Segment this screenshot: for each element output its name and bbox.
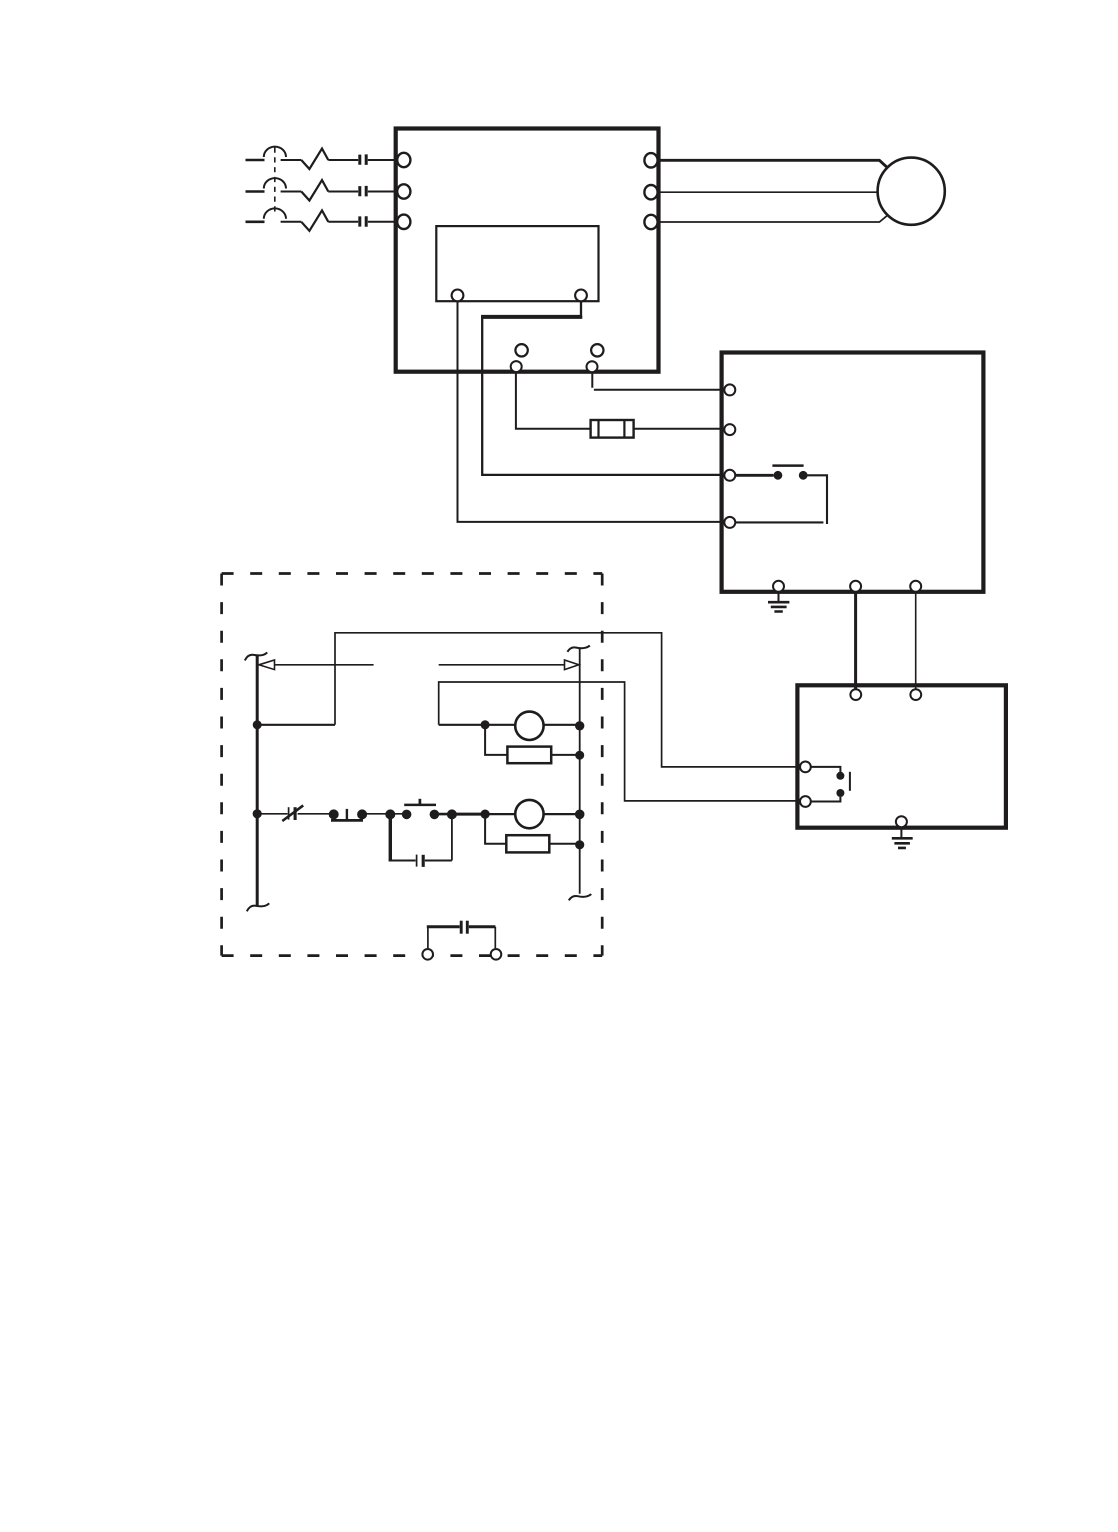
brake contact dot b	[836, 789, 844, 797]
inverter bottom terminal circle 1	[511, 361, 522, 372]
left rail top break tilde	[245, 652, 267, 660]
wire option to brake unit thin	[915, 592, 917, 690]
breaker element zigzag pole 2	[301, 180, 328, 200]
self hold branch wire left	[389, 860, 416, 862]
breaker linkage dashed line	[274, 148, 276, 215]
option terminal 1 circle	[724, 384, 735, 395]
wire stop to start section	[362, 813, 390, 815]
option bottom terminal circle 3	[910, 581, 921, 592]
contactor contact bars pole 1	[360, 154, 366, 165]
distance arrow left head	[259, 660, 275, 670]
junction dot rung1 right rail	[575, 721, 584, 730]
stop button contact dot right	[357, 809, 367, 819]
terminal T circle	[397, 215, 410, 229]
inverter bottom knockout upper circle 2	[591, 344, 603, 356]
brake left terminal circle 2	[800, 796, 811, 807]
inverter bottom terminal circle 2	[587, 361, 598, 372]
dashed enclosure top edge	[222, 572, 603, 575]
inverter bottom knockout upper circle 1	[515, 344, 527, 356]
wire U to motor	[658, 160, 888, 167]
distance arrow right shaft	[439, 664, 565, 666]
fuse F1 end caps	[599, 420, 625, 438]
wire to brake unit terminal2	[439, 682, 800, 801]
dashed enclosure right edge	[601, 574, 604, 956]
resistor branch rung2 wire	[485, 814, 580, 844]
contactor contact bars pole 2	[360, 186, 366, 197]
internal relay contact bar	[772, 464, 803, 467]
surge capacitor plate left	[460, 921, 463, 934]
contactor contact bars pole 3	[360, 216, 366, 227]
self hold branch wire right	[425, 860, 452, 862]
terminal S circle	[397, 184, 410, 198]
resistor R1 body	[507, 747, 551, 764]
option bottom terminal circle 2	[850, 581, 861, 592]
panel terminal circle right	[575, 290, 587, 302]
ground symbol of option unit	[778, 592, 780, 602]
distance arrow right head	[565, 660, 579, 670]
left rail bottom break tilde	[247, 903, 269, 911]
right supply rail	[579, 649, 581, 894]
brake bottom terminal circle	[896, 816, 907, 827]
breaker MCCB pole 1 arc	[264, 147, 286, 157]
self hold contact thin bar	[416, 855, 418, 867]
wire D to coil rung2 thick	[452, 813, 485, 816]
internal relay contact dot a	[774, 471, 783, 480]
distance arrow left shaft	[275, 664, 374, 666]
start button contact dot C	[430, 810, 440, 820]
terminal U circle	[644, 153, 657, 167]
wire contact to terminal4	[735, 475, 827, 524]
surge capacitor plate right	[466, 921, 469, 934]
NC relay contact thin bar	[288, 807, 290, 819]
operation panel box	[436, 226, 598, 301]
option terminal 2 circle	[724, 424, 735, 435]
inverter box	[396, 129, 659, 372]
fuse F1 body	[591, 420, 634, 438]
brake unit box	[797, 685, 1006, 827]
resistor R2 body	[506, 835, 549, 852]
self hold branch left leg	[389, 814, 392, 860]
breaker element zigzag pole 3	[301, 210, 328, 230]
junction dot rung2 right rail	[575, 810, 585, 820]
stop button contact dot left	[329, 809, 339, 819]
self hold branch right leg	[451, 814, 453, 860]
wire rung2 from left rail	[257, 813, 287, 815]
wire terminal3 to internal contact	[735, 474, 773, 477]
resistor branch rung1 wire	[485, 725, 580, 755]
wire terminal1 down to fuse	[516, 372, 591, 429]
wire rung2 to stop button	[298, 813, 330, 815]
option bottom terminal E circle	[773, 581, 784, 592]
surge capacitor top wire left	[427, 925, 460, 928]
internal relay contact dot b	[799, 471, 808, 480]
NC relay contact thick bar	[294, 807, 297, 820]
NC relay contact slash	[282, 805, 303, 821]
junction dot resistor2 right rail	[575, 840, 584, 849]
start button open bar	[404, 804, 436, 807]
right rail bottom break tilde	[569, 894, 591, 900]
panel terminal circle left	[452, 290, 464, 302]
wire L2 input stub	[246, 190, 265, 193]
stop button stem	[346, 809, 348, 819]
wire V to motor	[658, 191, 879, 193]
wire L1 input stub	[246, 159, 265, 162]
wire option to brake unit thick	[854, 592, 857, 690]
right rail top break tilde	[567, 646, 589, 652]
terminal R circle	[397, 153, 410, 167]
junction dot resistor1 right rail	[575, 751, 584, 760]
wire to brake unit terminal1	[335, 633, 800, 767]
wire rung1 left segment	[257, 724, 335, 726]
wire rung2 coil segment	[485, 813, 580, 815]
junction dot start section D	[447, 809, 457, 819]
surge capacitor right leg	[494, 927, 496, 948]
terminal W circle	[644, 215, 657, 229]
wire panel right thick elbow	[481, 316, 582, 319]
wire panel right to option terminal 3	[482, 301, 725, 475]
wire rung1 coil segment	[439, 724, 580, 726]
start button stem	[419, 799, 422, 805]
junction dot start section A	[385, 809, 395, 819]
brake top terminal circle 1	[850, 689, 861, 700]
wire contact to terminal2	[811, 797, 841, 802]
wire L2 to contact	[328, 191, 358, 193]
surge terminal circle left	[422, 949, 433, 960]
wire L2 after breaker	[281, 191, 302, 193]
wire L3 input stub	[246, 221, 265, 224]
start button contact dot B	[402, 810, 412, 820]
wire L1 after breaker	[281, 159, 302, 161]
stop button closed bar	[331, 819, 363, 822]
junction dot rung1 left rail	[253, 720, 262, 729]
wire panel left to option terminal 4	[458, 301, 726, 522]
wire fuse to option terminal 2	[634, 428, 725, 430]
surge capacitor left leg	[427, 927, 429, 948]
relay coil MC1 circle	[515, 712, 543, 740]
option terminal 4 circle	[724, 517, 735, 528]
wire L1 to terminal R	[368, 159, 395, 161]
wire L3 after breaker	[281, 221, 302, 223]
dashed enclosure bottom edge	[222, 954, 603, 957]
brake contact bar	[849, 772, 851, 791]
surge capacitor top wire right	[469, 925, 496, 928]
breaker element zigzag pole 1	[301, 149, 328, 169]
terminal V circle	[644, 185, 657, 199]
wire W to motor	[658, 216, 887, 222]
wire C to D	[434, 813, 452, 816]
motor M circle	[878, 158, 945, 225]
breaker MCCB pole 3 arc	[264, 208, 286, 218]
wire L3 to contact	[328, 221, 358, 223]
wire L3 to terminal T	[368, 221, 395, 223]
junction dot rung1 branch	[481, 720, 490, 729]
brake top terminal circle 2	[910, 689, 921, 700]
wire L1 to contact	[328, 159, 358, 161]
junction dot rung2 left rail	[253, 809, 262, 818]
brake left terminal circle 1	[800, 762, 811, 773]
dashed enclosure left edge	[220, 574, 223, 956]
ground symbol of brake unit	[900, 827, 902, 837]
option terminal 3 circle	[724, 470, 735, 481]
left supply rail	[256, 656, 259, 907]
surge terminal circle right	[491, 949, 502, 960]
wire terminal2 to option terminal 1	[592, 373, 725, 390]
brake contact dot a	[836, 772, 844, 780]
breaker MCCB pole 2 arc	[264, 178, 286, 188]
self hold contact thick bar	[422, 855, 425, 867]
relay coil MC2 circle	[515, 800, 543, 828]
junction dot rung2 branch	[481, 810, 490, 819]
wire L2 to terminal S	[368, 191, 395, 193]
wire terminal1 to vertical contact	[811, 767, 841, 772]
option unit box	[722, 353, 984, 592]
wire A to B	[390, 813, 406, 815]
